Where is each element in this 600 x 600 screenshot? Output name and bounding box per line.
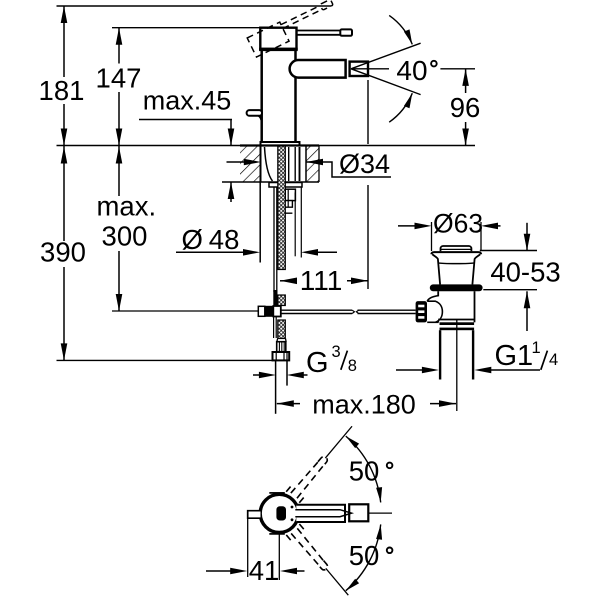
- drain seal flange: [430, 284, 483, 291]
- O63 arrows: [398, 225, 418, 227]
- spout outlet tab top view: [248, 511, 261, 519]
- extension line spout outlet: [367, 80, 369, 144]
- max45 leader: [139, 119, 232, 121]
- handle tip top view: [349, 504, 368, 521]
- hose end transition: [276, 339, 279, 342]
- spray angle arc lower: [389, 93, 412, 122]
- dimension 41: [247, 518, 249, 577]
- cartridge flats: [269, 492, 285, 494]
- svg-text:4: 4: [549, 351, 558, 369]
- faucet body top view circle: [260, 494, 298, 532]
- hose crimp collar: [277, 342, 286, 352]
- dimension 147 line: [118, 28, 120, 64]
- svg-text:Ø: Ø: [182, 224, 203, 255]
- handle rod top view: [295, 510, 351, 517]
- deck right edge: [318, 146, 320, 183]
- hose end tube: [275, 360, 277, 413]
- dimension 40-53 upper: [480, 250, 537, 252]
- svg-text:Ø34: Ø34: [339, 149, 390, 179]
- dimension 390 line: [63, 146, 65, 242]
- mounting hole right wall: [305, 146, 307, 183]
- O48 arrows: [176, 251, 246, 253]
- faucet base plinth: [261, 142, 300, 146]
- drain side boss: [427, 296, 438, 302]
- dimension 111 line: [280, 280, 295, 282]
- svg-text:G: G: [306, 347, 329, 379]
- svg-text:111: 111: [300, 265, 343, 296]
- vertical pop-up rod: [273, 187, 275, 292]
- svg-text:1: 1: [532, 339, 541, 357]
- spout: [290, 60, 346, 78]
- aerator: [350, 62, 368, 76]
- dimension 96 line: [465, 69, 467, 93]
- max300 reference line / pop-up rod extension: [112, 310, 259, 312]
- drain upper body joint line: [438, 262, 475, 265]
- mounting bracket: [285, 189, 295, 200]
- rod coupling fitting: [258, 306, 265, 316]
- drain tailpiece G1 1/4: [439, 330, 441, 379]
- dimension 40-53 lower: [483, 289, 537, 291]
- svg-text:181: 181: [39, 75, 85, 106]
- svg-text:max.: max.: [97, 190, 157, 221]
- angle arc upper 50: [346, 436, 381, 502]
- deck bottom line: [222, 181, 319, 183]
- angle arc lower 50: [346, 524, 381, 590]
- deck cross-section hatched left: [240, 146, 261, 183]
- dimension arrow O34 left: [227, 161, 249, 163]
- base edge extension right: [300, 187, 302, 258]
- braided supply hose upper: [278, 146, 286, 270]
- handle cartridge housing: [260, 28, 296, 49]
- svg-text:390: 390: [40, 237, 86, 268]
- G3/8 arrows: [253, 374, 263, 376]
- svg-text:300: 300: [102, 221, 148, 252]
- lever dot lower: [291, 518, 294, 521]
- hose hidden line right: [294, 193, 296, 257]
- drain lower body: [437, 291, 439, 296]
- faucet body: [262, 48, 296, 142]
- mounting washer: [269, 183, 302, 188]
- svg-text:50: 50: [349, 540, 380, 571]
- svg-text:41: 41: [249, 555, 280, 586]
- hose connection nut G3/8: [273, 352, 290, 360]
- pop-up actuating rod right segment: [356, 310, 358, 313]
- dimension 181 line: [63, 6, 65, 77]
- svg-text:96: 96: [450, 92, 481, 123]
- handle lever tip: [340, 29, 352, 35]
- dashed handle swung up 50: [286, 421, 359, 503]
- O63 extension lines: [431, 222, 433, 251]
- svg-text:8: 8: [348, 357, 357, 375]
- svg-text:G1: G1: [495, 340, 534, 372]
- cartridge opening: [276, 506, 286, 520]
- drain upper body right side: [472, 254, 480, 284]
- svg-text:Ø63: Ø63: [433, 209, 483, 239]
- G1 1/4 arrows: [396, 369, 426, 371]
- rod adjustment knob: [416, 301, 427, 322]
- supply pipe curve in hole: [265, 147, 273, 181]
- svg-text:40-53: 40-53: [490, 256, 560, 287]
- svg-text:3: 3: [332, 343, 341, 361]
- O34 leader: [306, 162, 391, 177]
- svg-text:48: 48: [209, 224, 240, 255]
- housing joint bar: [259, 48, 298, 51]
- lever dot upper: [291, 506, 294, 509]
- bottom reference line 390: [57, 359, 274, 361]
- dimension max180: [277, 403, 300, 405]
- handle bar top view: [296, 505, 345, 522]
- svg-text:40: 40: [396, 55, 427, 86]
- deck surface thick segment: [240, 144, 319, 146]
- drain flange brim: [431, 252, 481, 254]
- drain plug cap: [441, 246, 472, 251]
- dimension arrow O34 right: [306, 159, 323, 166]
- drain upper body left side: [432, 254, 440, 284]
- reference line top of raised lever: [57, 5, 332, 7]
- max45 lower arrow: [230, 182, 232, 202]
- svg-text:50: 50: [349, 455, 380, 486]
- hose hidden line left: [259, 182, 261, 263]
- rod below fitting: [273, 317, 275, 339]
- braided supply hose lower: [278, 320, 286, 339]
- deck cross-section hatched right: [306, 146, 319, 183]
- mounting deck surface line: [57, 145, 476, 147]
- spray angle lines: [351, 43, 421, 69]
- braided supply hose mid: [278, 295, 286, 306]
- pop-up rod lever on faucet: [247, 110, 262, 116]
- dashed raised lever position: [247, 0, 339, 57]
- mounting hole left wall: [260, 146, 262, 183]
- reference line top of handle housing: [112, 27, 260, 29]
- drain centerline: [456, 320, 458, 412]
- drain locknut: [440, 322, 475, 325]
- svg-text:max.45: max.45: [143, 86, 232, 116]
- svg-text:max.180: max.180: [312, 390, 416, 420]
- handle centerline: [368, 512, 392, 514]
- handle lever: [297, 30, 341, 32]
- dimension max300 line: [118, 146, 120, 197]
- pop-up actuating rod left segment: [281, 309, 352, 311]
- svg-text:147: 147: [96, 63, 142, 94]
- spray angle arc upper: [389, 15, 412, 44]
